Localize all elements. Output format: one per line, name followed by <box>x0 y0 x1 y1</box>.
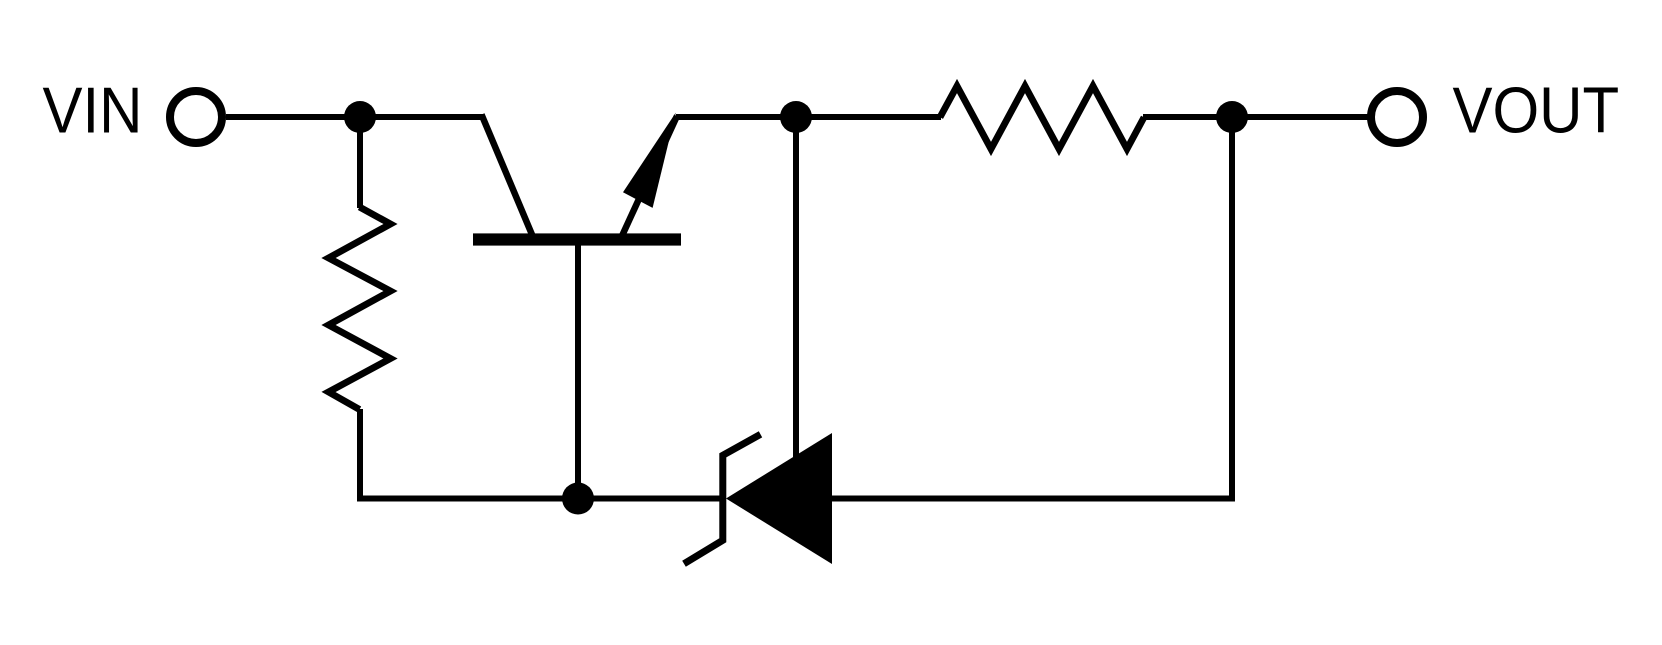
terminal VIN <box>170 91 222 143</box>
svg-text:VOUT: VOUT <box>1453 75 1620 147</box>
wire node C to VOUT terminal <box>1232 114 1369 120</box>
label VOUT <box>1453 75 1620 147</box>
svg-text:VIN: VIN <box>43 75 143 147</box>
transistor Q1 base lead down to node D <box>575 243 581 499</box>
resistor R1 <box>329 207 391 410</box>
terminal VOUT <box>1371 91 1423 143</box>
wire node B down into zener anode <box>793 117 799 500</box>
wire node A to transistor collector <box>360 114 483 120</box>
node B junction dot <box>780 101 812 133</box>
node A junction dot <box>344 101 376 133</box>
wire R1 down and along bottom to zener cathode <box>360 409 724 499</box>
wire emitter to node B <box>676 114 798 120</box>
wire zener anode to bottom right corner and up to node C <box>830 117 1232 499</box>
node D junction dot (base to bottom rail) <box>562 483 594 515</box>
transistor Q1 emitter arrow <box>623 113 676 208</box>
wire node A down to resistor R1 <box>357 117 363 208</box>
transistor Q1 base bar <box>473 233 681 245</box>
node C junction dot <box>1216 101 1248 133</box>
wire node B to resistor R2 <box>796 114 941 120</box>
zener diode D1 cathode bar with bent ends <box>684 434 761 564</box>
transistor Q1 collector lead <box>482 115 534 238</box>
transistor Q1 emitter lead <box>622 116 678 237</box>
resistor R2 <box>940 86 1144 149</box>
zener diode D1 anode triangle <box>726 433 832 564</box>
wire R2 to node C <box>1143 114 1234 120</box>
wire VIN terminal to node A <box>226 114 362 120</box>
label VIN <box>43 75 143 147</box>
